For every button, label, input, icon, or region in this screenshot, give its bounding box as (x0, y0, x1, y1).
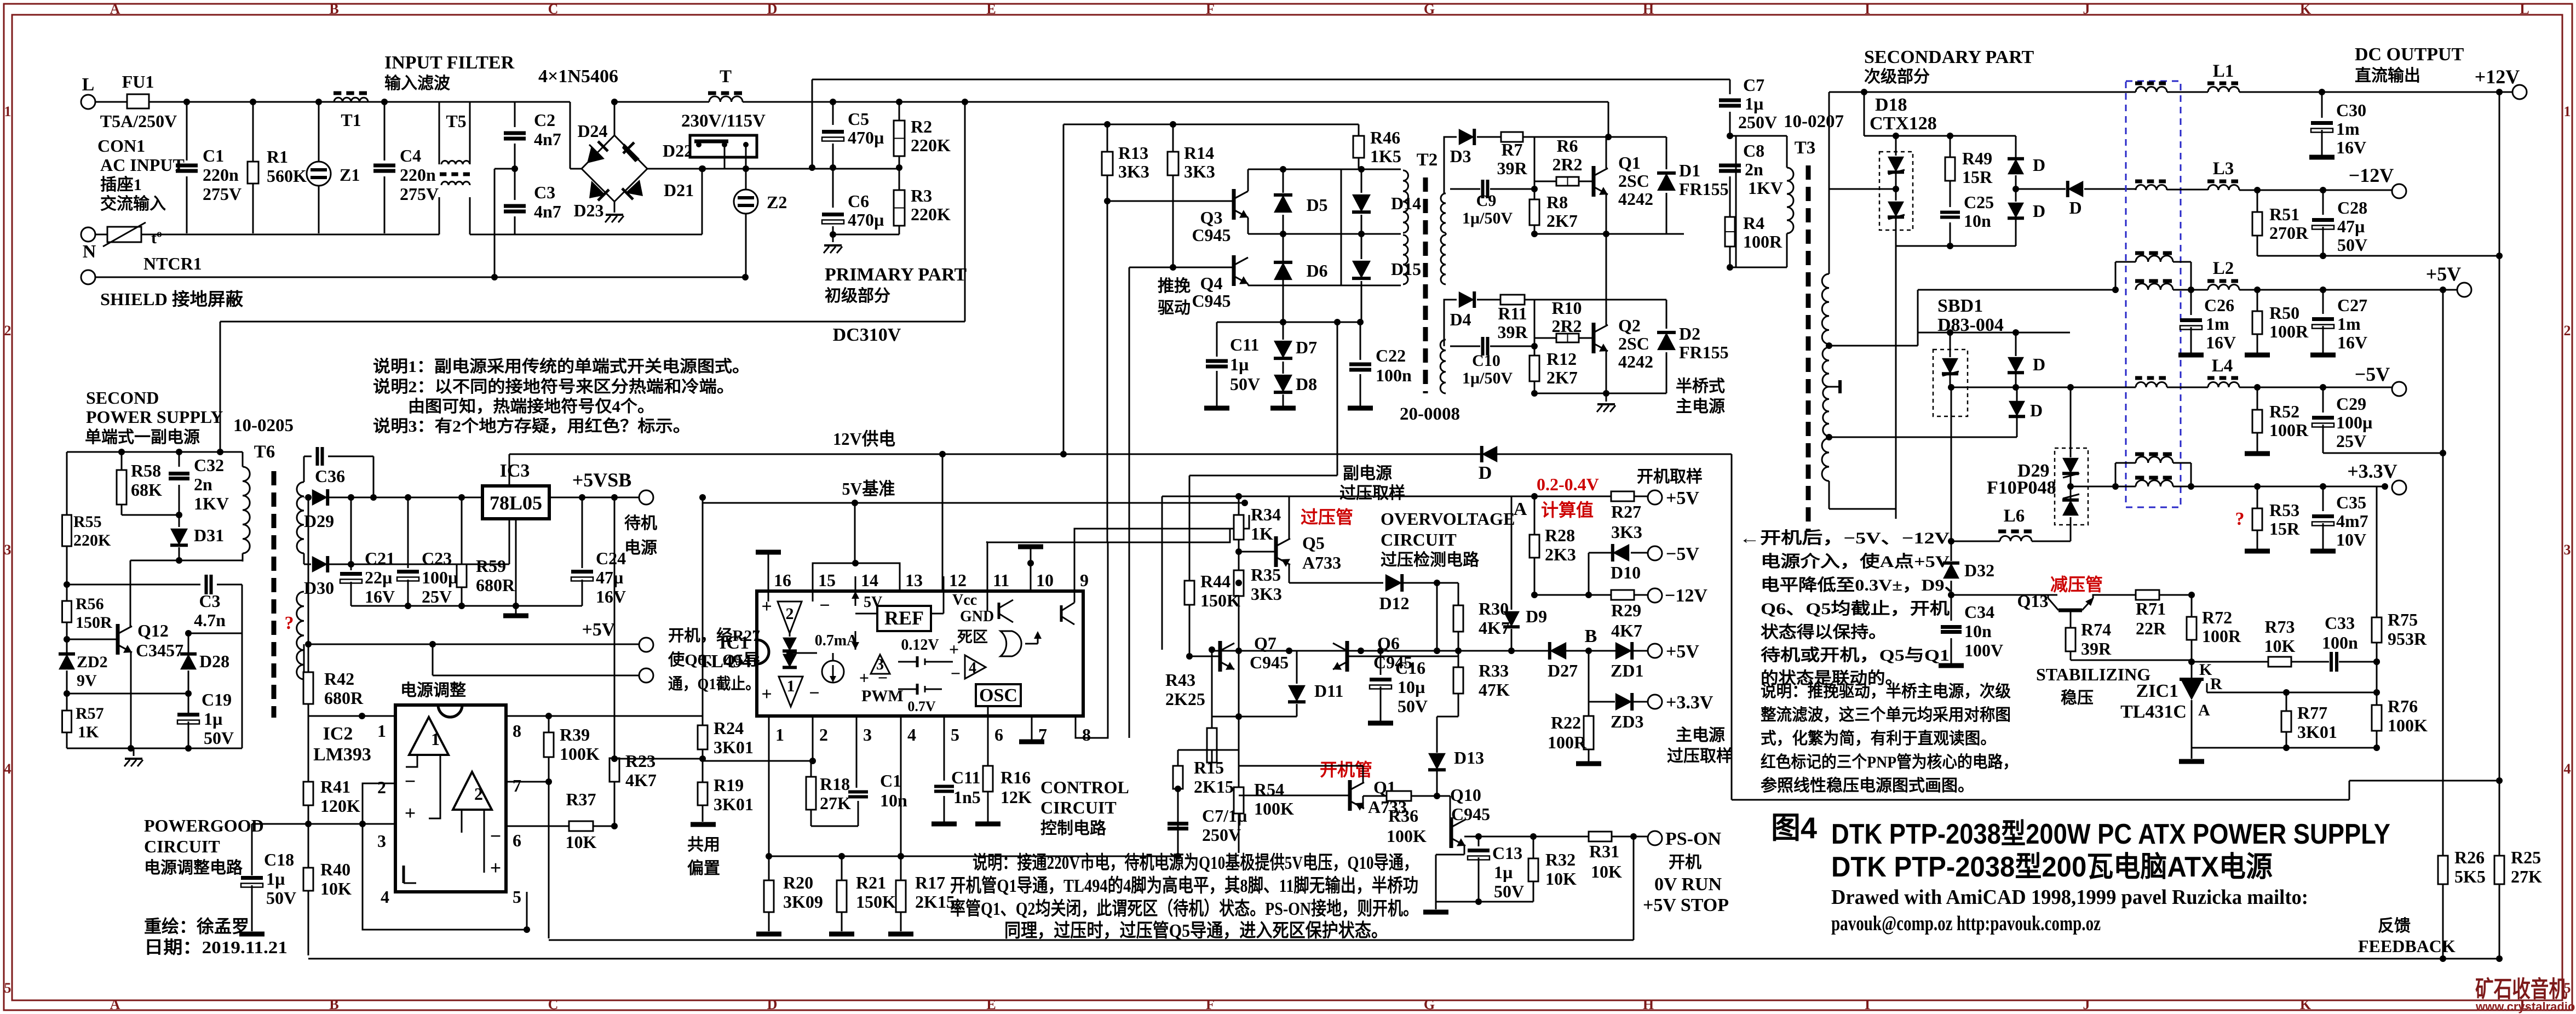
svg-text:R35: R35 (1251, 565, 1281, 585)
resistor R8 (1534, 137, 1536, 199)
svg-text:稳压: 稳压 (2061, 689, 2094, 707)
svg-text:2: 2 (4, 323, 12, 339)
wire TL431 R line (2206, 683, 2208, 692)
wire T3 tap 798 (1829, 437, 1993, 438)
svg-text:C945: C945 (1250, 652, 1289, 672)
pin2 loop (363, 783, 395, 824)
svg-text:半桥式: 半桥式 (1676, 377, 1725, 396)
wire long bottom 1744 (308, 958, 2499, 960)
transistor Q3 (1232, 189, 1236, 220)
drive group 1 box (1444, 137, 1457, 189)
svg-text:C27: C27 (2337, 295, 2367, 315)
svg-text:D32: D32 (1964, 560, 1994, 580)
wire Q2 emitter (1606, 351, 1607, 393)
wire Q3 emitter to mid rail (1247, 217, 1249, 234)
wire 718 row (1534, 393, 1666, 394)
wire +12V down column (2499, 92, 2500, 256)
svg-text:D22: D22 (663, 141, 693, 161)
svg-text:R16: R16 (1001, 767, 1031, 787)
svg-text:控制电路: 控制电路 (1040, 820, 1107, 838)
wire L rail to bridge left (570, 102, 571, 169)
svg-text:PRIMARY PART: PRIMARY PART (825, 265, 967, 285)
svg-text:−: − (405, 770, 416, 792)
svg-text:100K: 100K (1254, 799, 1294, 818)
svg-text:10K: 10K (2264, 636, 2296, 656)
diode ZD2 (59, 654, 75, 670)
svg-text:参照线性稳压电源图式画图。: 参照线性稳压电源图式画图。 (1761, 777, 1974, 795)
svg-text:47K: 47K (1479, 680, 1510, 700)
svg-text:C5: C5 (848, 109, 869, 129)
svg-text:矿石收音机: 矿石收音机 (2475, 976, 2567, 1002)
capacitor C22 (1360, 322, 1361, 360)
svg-text:ZD1: ZD1 (1611, 661, 1643, 680)
svg-text:22R: 22R (2136, 618, 2166, 638)
wire 3.3 coil loop (2115, 463, 2117, 486)
capacitor C28 (2322, 190, 2324, 215)
svg-text:100R: 100R (2269, 322, 2309, 341)
svg-text:4242: 4242 (1618, 189, 1653, 209)
wire A to R27 (1534, 496, 1611, 497)
wire 12V to sampling column (1731, 454, 1733, 800)
svg-text:PS-ON: PS-ON (1665, 829, 1721, 849)
wire 5Vref col to IC2 (702, 497, 704, 725)
ground C22 (1348, 406, 1373, 411)
resistor R55 (66, 452, 68, 515)
svg-text:D2: D2 (1679, 324, 1700, 343)
resistor R51 (2257, 190, 2258, 212)
wire D12 row (1289, 582, 1383, 584)
svg-text:E: E (986, 1, 996, 17)
resistor R2 (899, 102, 900, 121)
svg-text:5: 5 (951, 725, 959, 744)
wire row 1504 (308, 823, 363, 825)
svg-text:1: 1 (2564, 104, 2571, 119)
svg-text:15R: 15R (2269, 519, 2300, 538)
svg-text:推挽: 推挽 (1158, 277, 1191, 295)
svg-text:Q12: Q12 (137, 621, 169, 640)
svg-text:50V: 50V (1494, 881, 1524, 901)
svg-text:H: H (1643, 996, 1654, 1012)
svg-text:C945: C945 (1192, 225, 1231, 245)
capacitor C18 (251, 824, 253, 875)
wire Q5 collector to D12 row (1289, 565, 1290, 583)
svg-text:DC310V: DC310V (833, 325, 901, 345)
svg-text:14: 14 (861, 570, 878, 590)
resistor R39 (548, 716, 550, 732)
svg-text:100K: 100K (1387, 826, 1427, 846)
svg-text:G: G (1424, 1, 1435, 17)
resistor R1 (252, 102, 254, 162)
svg-text:R27: R27 (1611, 502, 1641, 522)
svg-text:15: 15 (818, 570, 836, 590)
svg-text:直流输出: 直流输出 (2355, 67, 2420, 85)
or gate out arrow (1025, 643, 1038, 645)
wire pin6 row R37 (506, 826, 569, 827)
svg-text:27K: 27K (2511, 867, 2542, 886)
svg-text:DTK PTP-2038型200W PC ATX POWER: DTK PTP-2038型200W PC ATX POWER SUPPLY (1831, 818, 2390, 850)
svg-text:3K01: 3K01 (714, 794, 754, 814)
svg-text:R17: R17 (915, 873, 945, 892)
REF box (877, 606, 931, 631)
ground R50 (2245, 353, 2270, 358)
svg-text:R55: R55 (73, 513, 102, 531)
svg-text:开机，经R27: 开机，经R27 (668, 626, 760, 645)
amp2 triangle (778, 601, 802, 633)
svg-text:SHIELD 接地屏蔽: SHIELD 接地屏蔽 (100, 289, 244, 309)
svg-text:5: 5 (513, 887, 521, 907)
D29 magamp diodes (2070, 387, 2072, 457)
wire C6 R3 bottom (833, 234, 899, 236)
svg-text:1KV: 1KV (1748, 178, 1783, 198)
terminal -12V (2392, 184, 2406, 198)
node R1 top (250, 99, 256, 105)
svg-text:6: 6 (994, 725, 1003, 744)
svg-text:R53: R53 (2269, 500, 2299, 520)
svg-text:R46: R46 (1370, 128, 1400, 147)
inductor L1 (2208, 87, 2239, 93)
svg-text:5: 5 (4, 980, 12, 996)
svg-text:Q1: Q1 (1618, 153, 1641, 173)
wire L4 to -5V (2239, 387, 2392, 388)
ground pin7 (1031, 729, 1033, 740)
capacitor C10 (1481, 337, 1485, 356)
svg-text:3K3: 3K3 (1184, 162, 1215, 181)
SBD1 diode 1 (1950, 333, 1951, 357)
wire sub rail 227 (1063, 124, 1359, 125)
resistor R28 (1534, 496, 1536, 535)
svg-text:D24: D24 (577, 121, 607, 141)
svg-text:R51: R51 (2269, 204, 2299, 224)
wire Z2 to shield (745, 214, 747, 277)
svg-text:电平降低至0.3V±，D9、: 电平降低至0.3V±，D9、 (1761, 576, 1963, 594)
svg-text:D21: D21 (664, 180, 694, 200)
svg-text:B: B (1585, 626, 1597, 646)
svg-text:R40: R40 (320, 860, 350, 879)
capacitor C30 (2321, 92, 2323, 118)
svg-text:T6: T6 (254, 442, 275, 462)
svg-text:5V基准: 5V基准 (842, 479, 895, 499)
svg-text:CIRCUIT: CIRCUIT (1381, 530, 1457, 549)
svg-text:Z2: Z2 (767, 192, 787, 212)
wire R44 top (1189, 476, 1191, 581)
svg-text:输入滤波: 输入滤波 (384, 75, 451, 93)
svg-text:率管Q1、Q2均关闭，此谓死区（待机）状态。PS-ON接地，: 率管Q1、Q2均关闭，此谓死区（待机）状态。PS-ON接地，则开机。 (950, 898, 1418, 919)
svg-text:+: + (949, 639, 959, 659)
resistor R53 (2257, 486, 2258, 508)
capacitor C1 (186, 102, 188, 161)
svg-text:1K: 1K (78, 723, 99, 741)
resistor R30 (1458, 583, 1459, 605)
resistor R54 (1234, 787, 1244, 814)
wire vcc drop (942, 454, 944, 591)
svg-text:H: H (1643, 1, 1654, 17)
capacitor C6 (832, 168, 834, 208)
svg-text:R32: R32 (1545, 850, 1576, 869)
svg-text:CON1: CON1 (97, 136, 145, 156)
T3 core (1806, 165, 1811, 180)
inductor T (709, 96, 743, 102)
wire Q1s base from R54 (1239, 795, 1350, 797)
wire Q10 row 1527 (1464, 836, 1634, 838)
wire +12V col down (2499, 256, 2500, 959)
terminal +5V powergood (639, 638, 653, 652)
svg-text:FEEDBACK: FEEDBACK (2358, 936, 2456, 956)
node C4 top (381, 99, 388, 105)
wire pin2 row (812, 729, 814, 761)
resistor R75 (2376, 486, 2378, 617)
ground C26 (2178, 353, 2204, 358)
svg-text:4K7: 4K7 (1611, 621, 1642, 640)
svg-text:R73: R73 (2264, 617, 2295, 637)
capacitor C24 (582, 497, 583, 568)
diode ZD3 (1615, 693, 1632, 711)
ground C27 (2310, 353, 2336, 358)
resistor R37 (569, 821, 593, 831)
wire row to Q1 region (1212, 716, 1239, 718)
wire 2442 vertical (1337, 322, 1338, 476)
svg-text:−: − (809, 683, 819, 703)
svg-text:D3: D3 (1450, 146, 1471, 166)
wire Q10 emitter to gnd (1464, 846, 1465, 855)
svg-text:250V: 250V (1738, 112, 1777, 132)
svg-text:275V: 275V (400, 184, 439, 204)
wire 3.3 rail to D29 box (2071, 486, 2103, 488)
capacitor C26 (2190, 290, 2192, 315)
diode D9 (1511, 496, 1513, 610)
svg-text:1µ: 1µ (1494, 862, 1513, 882)
svg-text:20-0008: 20-0008 (1400, 404, 1460, 424)
svg-text:+12V: +12V (2475, 66, 2520, 88)
svg-text:D10: D10 (1611, 563, 1641, 582)
svg-text:470µ: 470µ (848, 128, 884, 147)
svg-text:L4: L4 (2212, 356, 2233, 376)
D18 dual diode (1895, 136, 1897, 156)
resistor R46 (1358, 124, 1360, 136)
svg-text:+5VSB: +5VSB (572, 469, 632, 491)
wire C36 loop (303, 456, 305, 482)
svg-text:R76: R76 (2388, 696, 2418, 716)
wire Q4 emitter to rail 521 (1247, 284, 1249, 285)
capacitor C7 1u (1168, 822, 1188, 826)
wire 868 row (1189, 475, 1337, 477)
svg-text:3K3: 3K3 (1118, 162, 1149, 181)
svg-text:开机: 开机 (1669, 853, 1701, 872)
ground C35 (2310, 549, 2336, 554)
diode D24 (587, 146, 605, 163)
wire bottom rail sps (67, 748, 242, 749)
T3 center tap mark (1829, 386, 1840, 388)
resistor R77 (2286, 692, 2287, 711)
OSC box (976, 684, 1021, 706)
wire pin4 down (900, 729, 902, 856)
svg-text:C945: C945 (1192, 291, 1231, 311)
transistor Q4 (1232, 255, 1236, 286)
svg-text:副电源: 副电源 (1343, 465, 1392, 483)
terminal L (81, 95, 95, 109)
svg-text:R43: R43 (1165, 670, 1195, 690)
wire DC310V line (220, 321, 965, 323)
coil cm +12V (2136, 87, 2167, 93)
svg-text:4×1N5406: 4×1N5406 (538, 66, 618, 87)
svg-text:T3: T3 (1795, 138, 1816, 158)
svg-text:使Q6、Q5导: 使Q6、Q5导 (668, 651, 760, 669)
svg-text:275V: 275V (203, 184, 242, 204)
wire L3 to -12V (2167, 189, 2208, 191)
svg-text:R26: R26 (2454, 847, 2485, 867)
svg-text:开机管Q1导通，TL494的4脚为高电平，其8脚、11脚无输: 开机管Q1导通，TL494的4脚为高电平，其8脚、11脚无输出，半桥功 (950, 875, 1418, 896)
svg-text:Z1: Z1 (340, 165, 360, 185)
svg-text:T1: T1 (341, 110, 361, 130)
svg-text:C7: C7 (1743, 75, 1764, 95)
svg-text:220K: 220K (73, 531, 111, 549)
svg-text:100K: 100K (2388, 715, 2428, 735)
svg-text:状态得以保持。: 状态得以保持。 (1761, 623, 1887, 641)
svg-text:100n: 100n (1376, 365, 1412, 385)
wire R43 column (1211, 650, 1213, 728)
svg-text:Vcc: Vcc (952, 592, 977, 609)
ground D8 (1270, 406, 1296, 411)
ground C30 (2309, 155, 2334, 160)
svg-text:1: 1 (377, 721, 386, 741)
svg-text:953R: 953R (2388, 629, 2427, 649)
svg-text:T2: T2 (1417, 150, 1438, 170)
svg-text:R23: R23 (625, 751, 656, 771)
svg-text:OSC: OSC (979, 685, 1017, 706)
inductor L6 (2000, 536, 2032, 541)
terminal +3.3V (2392, 480, 2406, 495)
svg-text:ZD2: ZD2 (77, 653, 108, 671)
pin8 loop (1076, 542, 1108, 738)
capacitor C13 (1478, 837, 1480, 846)
T2 right winding upper (1441, 193, 1446, 233)
svg-text:ZD3: ZD3 (1611, 712, 1643, 731)
svg-text:D1: D1 (1679, 161, 1700, 180)
svg-text:C22: C22 (1376, 346, 1406, 365)
resistor R49 (1950, 136, 1951, 157)
svg-text:I: I (1865, 996, 1870, 1012)
resistor R29 (1611, 590, 1634, 600)
resistor R18 (810, 761, 812, 777)
svg-text:Q2: Q2 (1618, 316, 1641, 335)
wire IC3 out (549, 497, 639, 499)
T6 secondary bottom (297, 592, 304, 679)
wire bottom row 1365 (2192, 747, 2379, 749)
resistor R23 (614, 497, 616, 758)
svg-text:R30: R30 (1479, 599, 1509, 618)
label 5V arrow (855, 591, 856, 606)
coil cm -5V (2136, 382, 2167, 388)
svg-text:FU1: FU1 (122, 72, 154, 91)
capacitor C25 (1950, 181, 1951, 207)
svg-text:3: 3 (4, 542, 12, 558)
svg-text:1KV: 1KV (194, 494, 229, 513)
IC3 ground (515, 519, 517, 606)
OR gate (1001, 631, 1021, 656)
svg-text:C2: C2 (534, 110, 555, 130)
wire fuse to bridge corner (149, 101, 570, 103)
svg-text:INPUT FILTER: INPUT FILTER (384, 53, 515, 73)
svg-text:−: − (878, 668, 888, 688)
svg-text:整流滤波，这三个单元均采用对称图: 整流滤波，这三个单元均采用对称图 (1761, 706, 2011, 724)
diode D up1 (2015, 136, 2017, 158)
svg-text:25V: 25V (422, 587, 452, 606)
svg-text:TL431C: TL431C (2120, 702, 2187, 722)
svg-text:100R: 100R (2269, 420, 2309, 440)
svg-text:1: 1 (431, 729, 440, 749)
wire R13 column down (1107, 201, 1108, 542)
svg-text:Q5: Q5 (1302, 533, 1325, 553)
wire +5V column down (2442, 290, 2444, 955)
svg-text:R57: R57 (76, 704, 104, 723)
svg-text:1µ/50V: 1µ/50V (1462, 209, 1513, 227)
svg-text:L2: L2 (2213, 259, 2234, 278)
svg-text:D5: D5 (1306, 195, 1327, 215)
svg-text:4m7: 4m7 (2336, 511, 2368, 531)
svg-text:R2: R2 (911, 117, 932, 136)
resistor R19 (702, 761, 704, 782)
wire cap mid to shield (495, 168, 515, 170)
svg-text:C21: C21 (365, 548, 395, 568)
svg-text:R31: R31 (1589, 841, 1619, 861)
svg-text:C: C (548, 996, 559, 1012)
IC1 diodes (789, 633, 791, 637)
svg-text:同理，过压时，过压管Q5导通，进入死区保护状态。: 同理，过压时，过压管Q5导通，进入死区保护状态。 (1004, 920, 1388, 941)
wire D28 top row (188, 633, 242, 634)
T2 left winding (1403, 170, 1408, 233)
svg-text:R56: R56 (76, 595, 104, 613)
resistor R35b R44 join Q7 (1189, 656, 1220, 657)
resistor R50 (2257, 290, 2258, 311)
resistor R22 (1588, 702, 1590, 716)
wire 5V ref rail (703, 502, 1245, 504)
svg-text:B: B (329, 1, 338, 17)
svg-text:22µ: 22µ (365, 568, 392, 587)
svg-text:−5V: −5V (1666, 544, 1699, 564)
wire R33 bottom to D13 col (1437, 716, 1458, 718)
diode D31 (179, 515, 180, 527)
resistor R21 (841, 856, 843, 880)
svg-text:1: 1 (787, 677, 795, 695)
svg-text:4: 4 (381, 887, 389, 907)
svg-text:CIRCUIT: CIRCUIT (1040, 798, 1117, 817)
ground Q10 (1435, 902, 1437, 909)
svg-text:−: − (819, 595, 830, 616)
resistor R14 (1172, 124, 1174, 152)
wire Q1 collector (1606, 137, 1607, 168)
wire R13 to Q3 base (1107, 175, 1108, 201)
resistor R15 (1177, 750, 1179, 766)
svg-text:+5V STOP: +5V STOP (1643, 895, 1729, 915)
svg-text:G: G (1424, 996, 1435, 1012)
IC2 pin4 ground mark (403, 866, 405, 883)
svg-text:主电源: 主电源 (1676, 398, 1725, 416)
svg-text:2n: 2n (194, 474, 212, 494)
svg-text:10K: 10K (320, 879, 352, 898)
svg-text:−5V: −5V (2355, 363, 2390, 385)
svg-text:偏置: 偏置 (687, 860, 720, 878)
svg-text:CIRCUIT: CIRCUIT (144, 837, 220, 856)
svg-text:PWM: PWM (861, 687, 904, 705)
terminal +5V (2457, 283, 2471, 297)
svg-text:R3: R3 (911, 186, 932, 205)
capacitor C19 (177, 713, 199, 717)
node C2 C3 midpoint (511, 165, 518, 172)
wire SBD to +5V rail (1917, 290, 1919, 346)
svg-text:+3.3V: +3.3V (1666, 692, 1714, 713)
node C5 top (830, 99, 836, 105)
svg-text:10K: 10K (1545, 869, 1577, 889)
svg-text:电源调整: 电源调整 (400, 681, 466, 700)
